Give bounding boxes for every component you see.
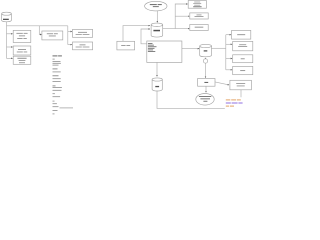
wire: spine4 vertical: [225, 35, 227, 70]
label: R2 lines: [197, 14, 202, 17]
wire: big box down to cylinder M2: [156, 62, 158, 76]
box R2: [190, 13, 208, 19]
top ellipse: [145, 1, 167, 11]
cylinder M2: [152, 78, 162, 91]
box A: [73, 29, 93, 37]
label: cylinder AII: [204, 50, 208, 51]
wire: arrow into box B: [68, 44, 72, 46]
cylinder AII: [200, 44, 212, 56]
label: box A lines: [78, 31, 87, 34]
box2 left column: [13, 46, 31, 55]
label: big box lines: [148, 42, 153, 45]
label: AvOSS box: [121, 44, 125, 47]
database cylinder left: [2, 12, 12, 22]
label: R6 line: [241, 57, 245, 60]
label: box B lines: [80, 43, 86, 46]
box R4: [232, 30, 251, 39]
label: left cylinder: [3, 19, 9, 20]
wire: arrow into R6: [226, 58, 232, 60]
box1 left column: [13, 30, 31, 42]
label: cylinder M: [153, 30, 160, 32]
junction circle: [203, 59, 207, 63]
wire: circle down into LLM box: [205, 63, 207, 77]
box R6: [233, 55, 253, 63]
wire: R8 down stub: [240, 90, 242, 98]
box R7: [233, 66, 253, 74]
box R5: [233, 41, 253, 50]
label: CSRF box lines: [47, 32, 53, 35]
box R1: [188, 1, 206, 9]
label: R3 line: [195, 26, 204, 29]
wire: cylinder M right to R3: [163, 28, 190, 30]
label: ellipse2 lines: [199, 95, 211, 98]
wire: spine right of CSRF: [67, 26, 69, 45]
wire: arrow into R4: [226, 34, 231, 36]
note: text notes block: [53, 55, 74, 114]
label: box1 lines: [16, 32, 22, 35]
wire: LLM box to R8: [215, 82, 229, 85]
label: R4 line: [237, 33, 245, 36]
box R3: [190, 25, 208, 31]
wire: branch to R2: [175, 15, 189, 17]
wire: LLM box down to ellipse2: [205, 86, 207, 92]
wire: arrow into R5: [226, 43, 232, 45]
wire: spine up to R1: [175, 4, 187, 29]
wire: ellipse to cylinder M: [156, 11, 158, 23]
wire: AvOSS box up to cylinder M: [123, 26, 150, 42]
label: box2 lines: [18, 48, 26, 51]
label: R7 line: [240, 69, 245, 72]
ellipse2: [196, 94, 214, 106]
wire: arrow into box A: [68, 31, 72, 33]
box R8: [230, 80, 252, 90]
wire: left cylinder down spine: [6, 22, 8, 59]
label: top ellipse lines: [150, 4, 157, 5]
label: cylinder M2: [155, 86, 159, 87]
label: R5 lines: [239, 43, 246, 46]
label: box3 lines: [17, 57, 26, 60]
box B: [73, 42, 93, 50]
wire: big box right to cylinder AII: [182, 48, 199, 50]
cylinder M: [151, 23, 163, 37]
AvOSS box: [117, 41, 135, 50]
LLM box: [198, 79, 215, 87]
wire: long top horizontal from left cylinder: [7, 25, 68, 27]
wire: big box left to cylinder M: [141, 29, 150, 44]
big box: [147, 41, 182, 62]
label: LLM box: [204, 82, 208, 83]
wire: drop to CSRF box: [39, 26, 41, 35]
wire: arrow into box2: [7, 46, 13, 48]
CSRF box: [42, 31, 63, 40]
label: R8 lines: [236, 82, 245, 85]
wire: cylinder AII right to spine4: [212, 47, 226, 49]
label: R1 lines: [194, 1, 200, 4]
wire: circle up into cylinder AII: [205, 57, 207, 60]
wire: arrow into R7: [226, 69, 232, 71]
note: colored annotation lines: [226, 99, 243, 106]
box3 left column: [13, 56, 31, 64]
wire: arrow into box1: [7, 33, 13, 35]
wire: cylinder M2 down and right: [157, 91, 225, 108]
wire: arrow into box3: [7, 57, 13, 59]
